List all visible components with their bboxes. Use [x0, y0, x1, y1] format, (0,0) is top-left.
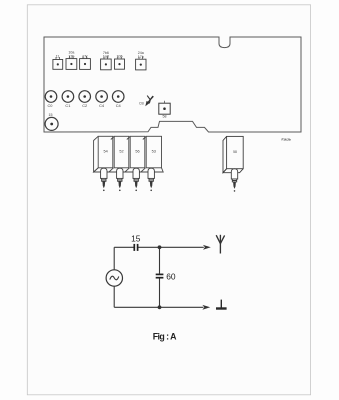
- trimmer square 15: [115, 55, 125, 70]
- module block 58: [223, 136, 243, 172]
- trimmer square 50: [159, 101, 170, 119]
- trimmer square 24: [136, 51, 146, 70]
- wire left vertical: [113, 247, 115, 270]
- svg-text:17c: 17c: [82, 54, 88, 58]
- capacitor C1: [62, 91, 74, 109]
- svg-text:C0: C0: [48, 103, 54, 108]
- svg-text:CB: CB: [139, 102, 144, 106]
- svg-text:11: 11: [56, 55, 60, 59]
- svg-text:C4: C4: [116, 103, 122, 108]
- svg-text:Fig : A: Fig : A: [153, 331, 177, 341]
- trimmer plug under module 56: [133, 168, 139, 191]
- capacitor C4: [112, 91, 124, 109]
- module group bottom face: [94, 168, 164, 172]
- trimmer plug under module 52: [117, 168, 123, 191]
- trimmer square 11: [53, 55, 63, 70]
- svg-text:C1: C1: [65, 103, 70, 108]
- svg-text:58: 58: [233, 150, 237, 154]
- wire top horizontal: [114, 246, 204, 248]
- trimmer plug under module 58: [231, 169, 237, 192]
- capacitor C0: [45, 91, 57, 109]
- antenna: [216, 235, 224, 254]
- junction top node: [158, 245, 162, 249]
- module block 51: [94, 136, 113, 172]
- svg-text:C2: C2: [82, 103, 87, 108]
- capacitor 15 gap mask: [135, 246, 137, 248]
- trimmer plug under module 51: [101, 168, 107, 191]
- arrowhead to ground: [202, 305, 210, 310]
- antenna trim symbol: [145, 96, 153, 107]
- trimmer square 7b: [101, 51, 112, 70]
- svg-text:54: 54: [103, 149, 107, 153]
- capacitor 15: [134, 244, 137, 251]
- ground: [216, 300, 227, 309]
- svg-text:13b: 13b: [68, 54, 74, 58]
- arrowhead to antenna: [203, 245, 211, 250]
- module block 56: [127, 136, 145, 168]
- junction bottom node: [158, 305, 162, 309]
- svg-text:58: 58: [163, 114, 167, 118]
- trimmer square 10: [66, 51, 77, 70]
- capacitor C2: [79, 91, 91, 109]
- svg-text:15: 15: [49, 113, 53, 117]
- svg-text:52: 52: [119, 149, 123, 153]
- AC source: [106, 270, 122, 286]
- svg-text:1a8: 1a8: [103, 55, 109, 59]
- wire left vertical lower: [113, 286, 115, 307]
- wire shunt branch: [159, 247, 161, 273]
- wire shunt branch lower: [159, 278, 161, 307]
- module block 52: [111, 136, 129, 168]
- svg-text:60: 60: [166, 272, 176, 282]
- svg-text:15: 15: [131, 233, 141, 243]
- trimmer plug under module 53: [148, 168, 154, 191]
- capacitor C3: [96, 91, 108, 109]
- capacitor 60: [156, 274, 164, 277]
- PCB board outline: [44, 37, 301, 132]
- trimmer square 17: [80, 54, 91, 69]
- svg-text:53: 53: [152, 149, 156, 153]
- svg-text:F16.2b: F16.2b: [282, 138, 291, 142]
- module block 53: [143, 136, 162, 168]
- svg-text:17b: 17b: [138, 55, 144, 59]
- svg-text:C4: C4: [99, 103, 105, 108]
- wire bottom horizontal: [114, 306, 203, 308]
- svg-text:1b5: 1b5: [117, 55, 123, 59]
- svg-text:56: 56: [135, 149, 139, 153]
- capacitor C5: [45, 113, 58, 130]
